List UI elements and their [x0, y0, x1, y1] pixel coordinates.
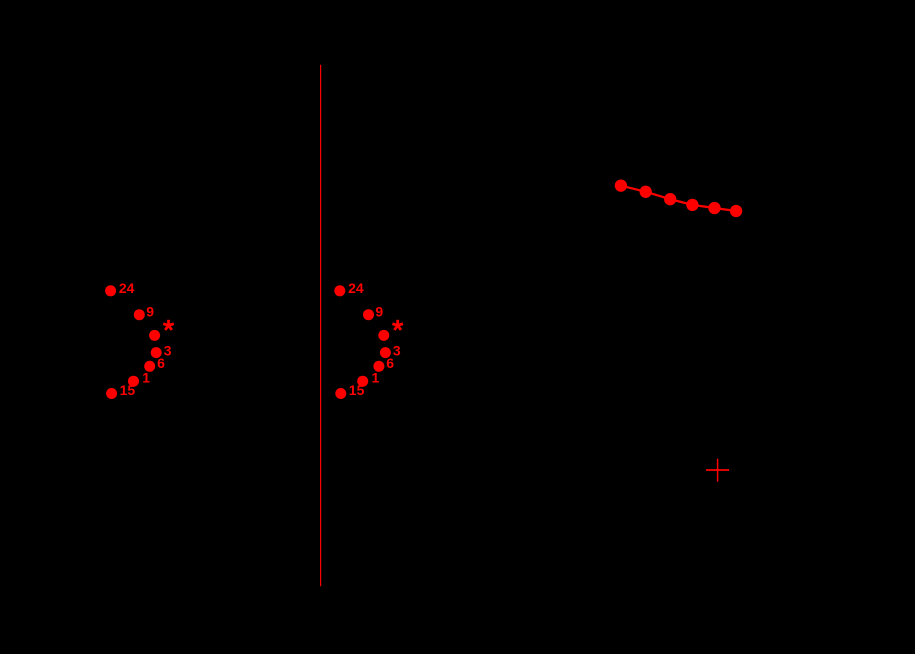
svg-text:15: 15 [120, 382, 136, 398]
bottom-right: cross marker [706, 459, 729, 482]
data point 6 (middle) [373, 361, 384, 372]
svg-text:24: 24 [119, 280, 135, 296]
svg-text:9: 9 [146, 304, 154, 320]
data point 1 (left) [128, 376, 139, 387]
top-right: connected chain of epochs [615, 179, 742, 217]
data point * (left) [149, 330, 160, 341]
vertical red reference line [320, 65, 322, 587]
middle panel: orbit track points (same pattern, shifted) [334, 280, 403, 399]
svg-text:6: 6 [386, 355, 394, 371]
label * asterisk (middle) [392, 320, 403, 330]
data point 15 (middle) [335, 388, 346, 399]
data point 6 (left) [144, 361, 155, 372]
data point * (middle) [378, 330, 389, 341]
chain point 3 [664, 193, 676, 205]
data point 24 (left) [105, 285, 116, 296]
chain point 5 [708, 202, 720, 214]
label * asterisk (left) [163, 320, 174, 330]
chain point 2 [640, 186, 652, 198]
data point 15 (left) [106, 388, 117, 399]
svg-text:1: 1 [142, 369, 150, 385]
svg-text:15: 15 [349, 382, 365, 398]
data point 1 (middle) [357, 376, 368, 387]
data point 24 (middle) [334, 285, 345, 296]
cross vertical bar [717, 459, 719, 482]
cross horizontal bar [706, 469, 729, 471]
svg-text:1: 1 [372, 369, 380, 385]
data point 3 (middle) [380, 347, 391, 358]
data point 9 (left) [134, 309, 145, 320]
chain point 1 [615, 179, 627, 191]
chain point 4 [686, 199, 698, 211]
svg-text:6: 6 [157, 355, 165, 371]
left panel: orbit track points [105, 280, 174, 399]
data point 3 (left) [151, 347, 162, 358]
chain point 6 [730, 205, 742, 217]
data point 9 (middle) [363, 309, 374, 320]
svg-text:24: 24 [348, 280, 364, 296]
chain connecting line [621, 186, 736, 211]
svg-text:9: 9 [375, 304, 383, 320]
